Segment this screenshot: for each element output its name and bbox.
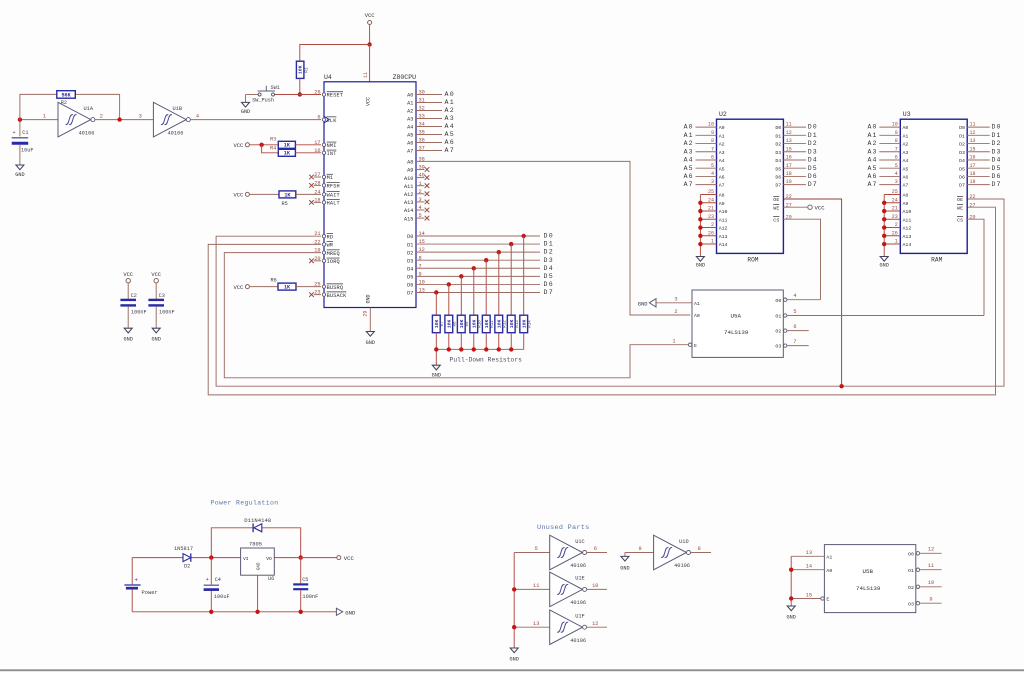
junction ground bus of U3 (882, 201, 886, 205)
inverter U1F (514, 610, 607, 645)
pin 10 O2 of U5B (908, 580, 942, 591)
svg-text:R4: R4 (270, 146, 276, 152)
svg-text:D6: D6 (775, 175, 781, 181)
svg-text:C3: C3 (159, 293, 165, 299)
junction node A (18, 117, 22, 121)
svg-text:U1C: U1C (575, 539, 585, 545)
svg-text:A12: A12 (719, 226, 728, 232)
ground symbol unused inputs (510, 648, 519, 663)
wire ROM CS to U5A O0 (783, 219, 820, 300)
wire WR net to RAM WE (208, 207, 995, 395)
wire unused inputs bus (513, 553, 515, 648)
svg-text:A2: A2 (445, 107, 456, 114)
wire ground bus of U2 (699, 195, 701, 257)
svg-text:A0: A0 (719, 125, 725, 131)
svg-text:D6: D6 (407, 283, 413, 289)
svg-text:D4: D4 (544, 265, 555, 272)
power flag VCC at R5 (233, 192, 249, 198)
pin 8 D3 of U4 with net label D3 (407, 255, 554, 264)
resistor R13 10K pull-down (507, 315, 520, 349)
svg-text:Pull-Down Resistors: Pull-Down Resistors (450, 357, 523, 364)
pin 11 D0 of U2 with net label D0 (775, 122, 817, 132)
junction ground bus of U3 (882, 209, 886, 213)
svg-text:D7: D7 (808, 181, 818, 188)
svg-text:A9: A9 (407, 168, 413, 174)
ic U5A 74LS139 body (692, 290, 783, 357)
svg-text:10K: 10K (459, 320, 465, 329)
wire D2 to pull-down resistor (498, 252, 500, 315)
svg-text:D1: D1 (544, 241, 555, 248)
junction pull-down rail (497, 347, 501, 351)
svg-text:MREQ: MREQ (327, 251, 340, 257)
power flag VCC top (365, 13, 375, 25)
pin 22 OE of U3 (957, 194, 976, 203)
svg-text:A7: A7 (445, 147, 456, 154)
ground symbol at U1D input (620, 556, 629, 571)
svg-text:4: 4 (196, 113, 199, 119)
pin 5 O1 of U5A (775, 309, 984, 320)
svg-text:A3: A3 (903, 150, 909, 156)
pin 6 A4 of U3 with net label A4 (867, 155, 908, 165)
pin 18 D6 of U2 with net label D6 (775, 171, 817, 181)
resistor R9 10K pull-down (457, 315, 470, 349)
label Power Regulation title (211, 500, 279, 507)
resistor R3 1K (270, 137, 321, 149)
svg-text:A2: A2 (407, 109, 413, 115)
junction RESET node (298, 92, 302, 96)
svg-text:40106: 40106 (570, 638, 586, 644)
svg-text:9: 9 (639, 546, 642, 552)
pin 7 D4 of U4 with net label D4 (407, 263, 554, 272)
svg-text:D5: D5 (959, 166, 965, 172)
svg-text:R3: R3 (270, 137, 276, 143)
svg-text:D3: D3 (808, 148, 818, 155)
svg-text:6: 6 (793, 324, 796, 330)
junction U6 ground (255, 610, 259, 614)
wire U1B output to Z80 CLK (190, 119, 321, 121)
svg-text:U1E: U1E (575, 576, 585, 582)
svg-text:D2: D2 (992, 140, 1002, 147)
pin 7 A3 of U3 with net label A3 (867, 146, 908, 156)
svg-text:A6: A6 (903, 175, 909, 181)
svg-text:100uF: 100uF (214, 594, 230, 600)
svg-text:A3: A3 (445, 115, 456, 122)
svg-text:C2: C2 (131, 293, 137, 299)
ic U5B 74LS139 body (824, 545, 915, 613)
pin 21 A10 of U2 (700, 206, 727, 216)
svg-text:A4: A4 (867, 157, 877, 164)
junction ground bus of U2 (698, 209, 702, 213)
svg-text:A0: A0 (826, 568, 832, 574)
svg-text:100nF: 100nF (302, 594, 318, 600)
capacitor C3 100nF (148, 283, 174, 328)
junction ground bus of U3 (882, 225, 886, 229)
pin 12 O0 of U5B (908, 547, 942, 558)
svg-text:D7: D7 (407, 291, 413, 297)
wire D3 to pull-down resistor (485, 260, 487, 315)
svg-text:6: 6 (594, 546, 597, 552)
resistor R10 10K pull-down (470, 315, 483, 349)
svg-text:A0: A0 (867, 124, 877, 131)
pin 30 A0 of U4 with net label A0 (407, 90, 455, 99)
junction ground bus of U2 (698, 234, 702, 238)
resistor R2 56K feedback (20, 91, 120, 120)
junction D2 pull-down (497, 250, 501, 254)
svg-text:D0: D0 (544, 233, 555, 240)
svg-text:D4: D4 (992, 157, 1002, 164)
capacitor C2 100nF (120, 283, 146, 328)
pin 36 A6 of U4 with net label A6 (407, 138, 455, 147)
svg-text:A3: A3 (684, 148, 694, 155)
pin 16 D4 of U2 with net label D4 (775, 155, 817, 165)
svg-text:GND: GND (366, 340, 375, 346)
svg-text:RAM: RAM (931, 257, 942, 264)
inverter U1D (625, 535, 711, 570)
pin 2 A12 of U4 unconnected (404, 189, 429, 198)
svg-text:A11: A11 (404, 184, 413, 190)
svg-text:VCC: VCC (151, 272, 161, 278)
svg-text:A2: A2 (719, 142, 725, 148)
resistor R4 1K (262, 145, 321, 157)
inverter U1C (514, 535, 607, 570)
svg-text:A2: A2 (684, 140, 694, 147)
pin 17 NMI of U4 (314, 140, 336, 149)
pin 21 RD of U4 (314, 231, 333, 240)
pin 39 A9 of U4 unconnected (407, 165, 429, 174)
svg-text:A1: A1 (407, 101, 413, 107)
svg-text:A3: A3 (719, 150, 725, 156)
svg-text:O2: O2 (908, 585, 914, 591)
svg-text:WAIT: WAIT (327, 193, 340, 199)
svg-text:GND: GND (241, 109, 250, 115)
pin 6 O2 of U5A (775, 324, 808, 335)
pin 13 A1 of U5B (791, 550, 832, 560)
pin 3 A7 of U2 with net label A7 (684, 179, 725, 189)
pin 3 A1 of U5A (656, 297, 700, 307)
pin 25 BUSRQ of U4 (314, 282, 343, 291)
power flag VCC at ROM WE (783, 205, 825, 212)
inverter U1A (43, 102, 103, 137)
resistor R7 10K pull-down (432, 315, 445, 349)
pin 15 E of U5B (791, 592, 829, 602)
svg-text:O0: O0 (775, 298, 781, 304)
pin 18 D6 of U3 with net label D6 (959, 171, 1001, 181)
pin 22 OE of U2 (773, 194, 792, 203)
svg-text:GND: GND (258, 562, 262, 570)
ground symbol pull-down rail (432, 365, 441, 378)
pin 1 A14 of U3 (884, 239, 911, 249)
pin 26 A13 of U3 (884, 230, 911, 240)
junction D7 pull-down (434, 290, 438, 294)
wire pull-down ground rail (436, 349, 523, 364)
svg-text:10K: 10K (298, 65, 304, 74)
svg-text:D5: D5 (808, 165, 818, 172)
pin 10 A0 of U3 with net label A0 (867, 122, 908, 132)
svg-text:A14: A14 (903, 242, 912, 248)
diode D2 1N5817 (174, 546, 193, 570)
svg-text:U1F: U1F (575, 614, 585, 620)
ground symbol below C1 (15, 165, 24, 178)
svg-text:D0: D0 (775, 125, 781, 131)
junction pull-down rail (459, 347, 463, 351)
svg-text:D5: D5 (775, 166, 781, 172)
svg-text:A8: A8 (407, 160, 413, 166)
svg-text:A0: A0 (407, 93, 413, 99)
junction pull-down rail (509, 347, 513, 351)
pin 7 O3 of U5A (775, 339, 808, 350)
pin 27 WE of U2 (773, 202, 792, 211)
svg-text:D3: D3 (959, 150, 965, 156)
svg-text:22: 22 (786, 194, 792, 200)
frame bottom edge (0, 669, 1024, 671)
svg-text:O3: O3 (775, 344, 781, 350)
label Pull-Down Resistors (450, 357, 523, 364)
svg-text:A4: A4 (903, 158, 909, 164)
svg-text:14: 14 (806, 564, 812, 570)
svg-text:40106: 40106 (79, 130, 95, 136)
ground symbol below U4 (366, 332, 375, 347)
svg-text:1K: 1K (284, 151, 291, 157)
svg-text:GND: GND (152, 337, 161, 343)
ground symbol below U3 address bus (880, 257, 889, 269)
svg-text:40106: 40106 (168, 130, 184, 136)
svg-text:12: 12 (928, 547, 934, 553)
svg-text:VCC: VCC (344, 555, 355, 562)
svg-text:WR: WR (327, 243, 334, 249)
svg-text:7805: 7805 (249, 541, 262, 547)
svg-text:A7: A7 (684, 181, 694, 188)
wire RAM CS to U5A O1 (967, 219, 984, 315)
svg-text:D2: D2 (407, 250, 413, 256)
pin 11 D0 of U3 with net label D0 (959, 122, 1001, 132)
svg-text:D7: D7 (544, 289, 555, 296)
svg-text:10K: 10K (446, 320, 452, 329)
junction pull-down rail (484, 347, 488, 351)
pin 4 A14 of U4 unconnected (404, 205, 429, 214)
pin 5 A5 of U3 with net label A5 (867, 163, 908, 173)
wire A8 to U5A A0 (416, 161, 690, 315)
ic U2 ROM body (717, 111, 784, 264)
svg-text:D7: D7 (775, 183, 781, 189)
pin 35 A5 of U4 with net label A5 (407, 130, 455, 139)
pin 13 D7 of U4 with net label D7 (407, 288, 554, 297)
svg-text:RFSH: RFSH (327, 184, 340, 190)
svg-text:INT: INT (327, 151, 337, 157)
svg-text:A10: A10 (404, 176, 413, 182)
pin 12 D1 of U3 with net label D1 (959, 130, 1001, 140)
svg-text:+: + (13, 130, 16, 136)
svg-text:U5A: U5A (731, 312, 742, 319)
wire SW1 to RESET pin (274, 94, 321, 96)
junction VCC node (367, 42, 371, 46)
svg-text:25: 25 (314, 282, 320, 288)
svg-text:D2: D2 (808, 140, 818, 147)
svg-text:D7: D7 (959, 183, 965, 189)
svg-text:A11: A11 (719, 217, 728, 223)
svg-text:1: 1 (43, 113, 46, 119)
svg-text:A11: A11 (903, 217, 912, 223)
svg-text:22: 22 (970, 194, 976, 200)
pin 31 A1 of U4 with net label A1 (407, 98, 455, 107)
svg-text:A15: A15 (404, 216, 413, 222)
svg-text:A14: A14 (404, 208, 413, 214)
svg-text:1: 1 (672, 339, 675, 345)
svg-text:9: 9 (929, 597, 932, 603)
svg-text:A4: A4 (407, 125, 413, 131)
junction ROM OE on RD net (839, 384, 843, 388)
svg-text:A7: A7 (719, 183, 725, 189)
svg-text:VI: VI (243, 556, 249, 562)
svg-text:VCC: VCC (233, 285, 243, 291)
svg-text:D5: D5 (407, 275, 413, 281)
svg-text:D4: D4 (808, 157, 818, 164)
svg-text:D0: D0 (959, 125, 965, 131)
svg-text:56K: 56K (61, 92, 71, 98)
pin 24 WAIT of U4 (314, 189, 340, 198)
svg-text:A1: A1 (867, 132, 877, 139)
junction regulator D1 right (299, 555, 303, 559)
pin 37 A7 of U4 with net label A7 (407, 146, 455, 155)
pin 19 D7 of U2 with net label D7 (775, 179, 817, 189)
svg-text:26: 26 (314, 90, 320, 96)
svg-text:D11N4148: D11N4148 (244, 517, 271, 524)
inverter U1B (139, 102, 199, 137)
inverter U1E (514, 572, 607, 607)
pin 14 D0 of U4 with net label D0 (407, 231, 554, 240)
junction D0 pull-down (522, 234, 526, 238)
pin 4 A6 of U3 with net label A6 (867, 171, 908, 181)
svg-text:A14: A14 (719, 242, 728, 248)
svg-text:O2: O2 (775, 329, 781, 335)
svg-text:D4: D4 (959, 158, 965, 164)
pin 15 D3 of U2 with net label D3 (775, 146, 817, 156)
pin 11 O1 of U5B (908, 563, 942, 574)
svg-text:GND: GND (124, 337, 133, 343)
pin 1 A14 of U2 (700, 239, 727, 249)
resistor R5 1K (249, 191, 321, 207)
svg-text:SW1: SW1 (271, 85, 280, 91)
pin 9 A1 of U2 with net label A1 (684, 130, 725, 140)
svg-text:GND: GND (366, 294, 372, 303)
svg-text:10K: 10K (471, 320, 477, 329)
ic U4 Z80CPU body (324, 74, 416, 308)
power flag GND output (336, 608, 356, 616)
svg-text:SW_Push: SW_Push (252, 97, 274, 103)
junction ground bus of U3 (882, 217, 886, 221)
svg-text:40106: 40106 (570, 600, 586, 606)
power flag GND at U5A A1 (638, 299, 656, 308)
svg-text:10K: 10K (484, 320, 490, 329)
svg-text:A1: A1 (903, 133, 909, 139)
junction pull-down rail (434, 347, 438, 351)
svg-text:GND: GND (696, 262, 705, 268)
svg-text:D4: D4 (407, 266, 413, 272)
svg-text:D1: D1 (992, 132, 1002, 139)
pin 28 RFSH of U4 (309, 180, 340, 189)
svg-text:1K: 1K (284, 143, 291, 149)
svg-text:16: 16 (314, 148, 320, 154)
pin 4 A6 of U2 with net label A6 (684, 171, 725, 181)
svg-text:11: 11 (928, 563, 934, 569)
svg-text:D6: D6 (959, 175, 965, 181)
svg-text:U6: U6 (268, 576, 274, 582)
svg-text:A5: A5 (407, 133, 413, 139)
junction regulator input (209, 555, 213, 559)
svg-text:4: 4 (793, 293, 796, 299)
svg-text:40106: 40106 (570, 563, 586, 569)
svg-text:A1: A1 (694, 301, 700, 307)
pin 29 GND of U4 (362, 308, 370, 332)
svg-text:D1: D1 (407, 242, 413, 248)
svg-text:WE: WE (773, 205, 779, 211)
svg-text:D2: D2 (184, 564, 190, 570)
wire VCC junction to Z80 pin 11 (363, 45, 370, 82)
svg-text:VO: VO (266, 556, 272, 562)
svg-text:13: 13 (533, 621, 539, 627)
svg-text:D3: D3 (992, 148, 1002, 155)
resistor R14 10K pull-down (520, 315, 533, 349)
svg-text:10: 10 (928, 580, 934, 586)
svg-text:HALT: HALT (327, 201, 340, 207)
svg-text:GND: GND (510, 657, 519, 663)
svg-text:10K: 10K (496, 320, 502, 329)
svg-text:5: 5 (793, 309, 796, 315)
svg-text:A5: A5 (445, 131, 456, 138)
power flag VCC output (337, 555, 355, 562)
pin 5 A15 of U4 unconnected (404, 213, 429, 222)
ground symbol below U2 address bus (696, 257, 705, 269)
pin 13 D2 of U3 with net label D2 (959, 138, 1001, 148)
svg-text:A5: A5 (719, 166, 725, 172)
svg-text:U2: U2 (719, 111, 727, 118)
svg-text:A9: A9 (903, 201, 909, 207)
svg-text:A0: A0 (445, 91, 456, 98)
svg-text:O0: O0 (908, 551, 914, 557)
svg-text:A1: A1 (684, 132, 694, 139)
svg-text:3: 3 (139, 113, 142, 119)
wire regulator output to VCC (274, 557, 337, 559)
svg-text:D3: D3 (544, 257, 555, 264)
wire ground rail power section (132, 611, 336, 613)
svg-text:E: E (694, 343, 697, 349)
pin 2 A0 of U5A (674, 309, 700, 319)
svg-text:A6: A6 (407, 141, 413, 147)
power flag VCC at R3 (233, 143, 249, 149)
svg-text:29: 29 (362, 311, 368, 317)
wire D6 to pull-down resistor (448, 284, 450, 315)
pin 40 A10 of U4 unconnected (404, 173, 429, 182)
svg-text:D6: D6 (992, 173, 1002, 180)
pin 8 A2 of U3 with net label A2 (867, 138, 908, 148)
power flag VCC at R6 (233, 285, 249, 291)
resistor R6 1K (249, 278, 321, 291)
junction D3 pull-down (484, 258, 488, 262)
ground symbol below C3 (152, 328, 161, 342)
junction ground bus of U2 (698, 225, 702, 229)
svg-text:7: 7 (793, 339, 796, 345)
wire node A to U1A input (20, 119, 58, 121)
svg-text:BUSACK: BUSACK (327, 293, 348, 299)
wire VCC to junction (369, 24, 371, 44)
pin 21 A10 of U3 (884, 206, 911, 216)
svg-text:U1B: U1B (173, 106, 183, 112)
pin 8 A2 of U2 with net label A2 (684, 138, 725, 148)
switch SW1 SW_Push (246, 85, 280, 103)
ground symbol below U5B inputs (787, 606, 796, 621)
resistor R8 10K pull-down (445, 315, 458, 349)
svg-text:11: 11 (363, 72, 369, 78)
junction U1A output (117, 117, 121, 121)
